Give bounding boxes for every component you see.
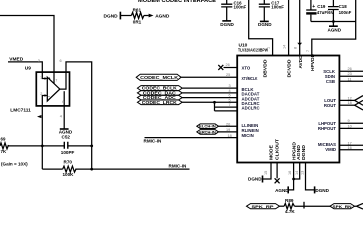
wire DGND to R61 [120,15,131,17]
svg-text:3: 3 [40,76,42,80]
ground AGND below op-amp [60,128,69,130]
pin RHPOUT wire [339,127,363,129]
pin MICBIAS wire [339,144,363,146]
svg-text:C52: C52 [62,134,71,139]
svg-text:19: 19 [226,128,230,132]
ground AGND top right [332,22,334,27]
svg-text:69: 69 [1,137,6,142]
svg-text:DGND: DGND [301,145,306,160]
svg-text:DCVDD: DCVDD [286,60,291,78]
svg-text:14: 14 [283,45,287,49]
svg-text:7K: 7K [1,149,7,154]
wire R61 to AGND arrow [144,15,149,17]
off-page chevron LOUT [355,96,363,106]
svg-text:U10: U10 [239,42,248,48]
svg-text:13: 13 [301,171,305,175]
HPGND AGND pins join [288,163,300,190]
junction dots [41,145,93,171]
off-page chevron ROUT [355,100,363,110]
pin ROUT wire [339,104,354,106]
svg-text:0R1: 0R1 [133,20,142,25]
svg-text:XTI/MCLK: XTI/MCLK [242,76,259,81]
svg-text:25: 25 [226,73,230,77]
svg-text:18: 18 [228,134,232,138]
pin CSB wire [339,80,363,82]
svg-text:MODE: MODE [269,145,274,160]
svg-text:CODEC_LRCK: CODEC_LRCK [142,100,177,105]
net arrow on -input wire [37,115,41,118]
wire ADCDAT [182,97,237,99]
capacitor C17 [263,0,265,21]
pin XTO with no-connect X [224,67,238,69]
svg-text:(Gain = 10X): (Gain = 10X) [1,162,28,167]
svg-text:C19: C19 [317,4,326,9]
wire AVDD feed [299,0,301,56]
svg-text:DGND: DGND [258,22,272,27]
svg-text:DGND: DGND [220,22,234,27]
capacitor C3 (C52) [64,142,68,149]
svg-text:1: 1 [267,47,271,49]
svg-text:15: 15 [264,171,268,175]
svg-text:DBVDD: DBVDD [263,60,268,78]
svg-text:+: + [312,4,315,10]
IC U10 box [237,56,339,163]
svg-text:ELCH-IN: ELCH-IN [199,124,216,129]
svg-text:5: 5 [229,98,231,102]
svg-text:3: 3 [229,84,231,88]
svg-text:2: 2 [40,92,42,96]
svg-text:R61: R61 [133,8,142,13]
junction dot on rail [332,20,335,23]
arrow to AGND [149,14,154,18]
svg-text:100nF: 100nF [234,4,247,9]
tag SPK_RN bottom right [330,204,355,209]
svg-text:100K: 100K [63,172,75,177]
junction tick [303,202,305,209]
svg-text:CSB: CSB [326,79,335,84]
svg-text:R70: R70 [64,159,73,164]
wire BCLK [182,87,237,89]
svg-text:14: 14 [295,171,299,175]
svg-text:RMIC-IN: RMIC-IN [169,164,188,169]
resistor R89 [284,203,294,209]
svg-text:AGND: AGND [275,188,289,193]
svg-text:HPVDD: HPVDD [310,54,315,71]
ground tick DGND [119,12,121,20]
power arrow on AVDD wire [297,43,302,46]
wire op-amp -input down [41,106,43,169]
pin LOUT wire [339,99,354,101]
tag CODEC_BCLK [137,86,182,91]
svg-text:100nF: 100nF [339,10,352,15]
op-amp input arrows [45,77,48,80]
capacitor C19 electrolytic [310,0,312,22]
tag ERCH-IN [197,130,219,135]
svg-text:4: 4 [60,114,62,118]
svg-text:SPK_RP: SPK_RP [252,204,274,209]
pin LHPOUT wire [339,122,363,124]
wire R89 to SPK_RN [294,205,330,207]
svg-text:LMC7111: LMC7111 [10,108,31,114]
svg-text:RHPOUT: RHPOUT [318,126,337,131]
svg-text:6: 6 [60,59,62,63]
svg-text:100nF: 100nF [271,4,284,9]
wire op-amp V- to ground [63,106,65,129]
svg-text:4.7K: 4.7K [285,209,295,214]
svg-text:20: 20 [226,122,230,126]
wire MCLK to XTI [181,76,237,78]
op-amp U1 triangle [42,72,66,106]
junction dot LRCK [213,101,216,104]
svg-text:47uF/6V: 47uF/6V [317,10,334,15]
svg-text:RMIC-IN: RMIC-IN [144,139,163,144]
svg-text:23: 23 [348,72,352,76]
wire DCVDD feed [288,0,290,56]
svg-text:6: 6 [62,100,64,104]
svg-text:XTO: XTO [242,66,251,71]
svg-text:ERCH-IN: ERCH-IN [199,129,216,134]
tag SPK_RP bottom left [247,204,280,209]
svg-text:7: 7 [306,50,310,52]
tag ELCH-IN [197,124,219,129]
svg-text:16: 16 [288,171,292,175]
wire VMED to op-amp +input [8,62,42,72]
tag CODEC_ADC [137,95,182,100]
svg-text:100PF: 100PF [61,150,75,155]
svg-text:CLKOUT: CLKOUT [275,139,280,160]
svg-text:26: 26 [226,63,230,67]
svg-text:7: 7 [229,103,231,107]
svg-text:DGND: DGND [315,188,329,193]
CLKOUT pin no-connect X [276,163,278,179]
svg-text:TLV320AIC23BPW: TLV320AIC23BPW [238,48,268,54]
ground DGND under C17 [260,20,269,22]
MODE pin wire to DGND [263,163,272,180]
svg-text:8: 8 [294,47,298,49]
resistor R61 [131,13,144,19]
pin SDIN wire [339,75,363,77]
resistor R69 at left edge [0,143,9,149]
wire RLINEIN [219,131,238,133]
wire DACDAT [182,92,237,94]
svg-text:9: 9 [348,119,350,123]
capacitor C18 [332,0,334,22]
svg-text:AGND: AGND [155,14,170,20]
svg-text:DGND: DGND [248,177,262,182]
svg-text:7: 7 [55,79,57,83]
svg-text:4: 4 [229,89,231,93]
svg-text:SPK_RN: SPK_RN [333,204,352,209]
wire C52 branch [8,145,92,147]
svg-text:AVDD: AVDD [298,56,303,69]
svg-text:12: 12 [348,96,352,100]
wire to R89 [280,205,285,207]
svg-text:U9: U9 [25,66,31,72]
svg-text:ROUT: ROUT [324,103,337,108]
tag CODEC_MCLK [136,74,181,80]
svg-text:CODEC_MCLK: CODEC_MCLK [140,75,178,80]
svg-text:MICIN: MICIN [242,133,254,138]
svg-text:16: 16 [348,146,352,150]
svg-text:VMED: VMED [9,56,23,62]
svg-text:18: 18 [348,101,352,105]
svg-text:AGND: AGND [328,28,342,33]
wire HPVDD feed [312,0,356,56]
ground DGND under C16 [222,20,231,22]
off-page chevron SPK [355,203,363,209]
svg-text:R89: R89 [285,198,294,203]
svg-text:17: 17 [348,141,352,145]
wire MICIN RMIC-IN [145,137,238,139]
svg-text:10: 10 [348,124,352,128]
wire DBVDD feed [249,0,273,56]
svg-text:26: 26 [348,67,352,71]
wire top-left V+ feed [0,16,54,73]
op-amp U1 box [36,72,69,106]
svg-text:VMID: VMID [325,147,336,152]
capacitor C16 [226,0,228,21]
wire analog cap rail [311,21,356,23]
svg-text:3: 3 [38,59,40,63]
wire op-amp output to feedback node [66,62,92,169]
pin VMID wire [339,149,363,151]
svg-text:MODEM CODEC INTERFACE: MODEM CODEC INTERFACE [138,0,217,4]
pin SCLK wire [339,70,363,72]
tag CODEC_DAC [137,91,182,96]
wire R70 branch [42,168,189,170]
svg-text:6: 6 [229,94,231,98]
resistor R70 [63,166,76,172]
svg-text:C18: C18 [339,4,348,9]
wire ADCLRC branch [215,102,238,111]
wire DACLRC [182,101,237,103]
DGND pin wire bottom right [306,163,315,190]
svg-text:11: 11 [348,77,352,81]
wire LLINEIN [219,125,238,127]
svg-text:DGND: DGND [104,13,119,19]
svg-text:ADCLRC: ADCLRC [242,106,260,111]
tag CODEC_LRCK [137,100,182,105]
